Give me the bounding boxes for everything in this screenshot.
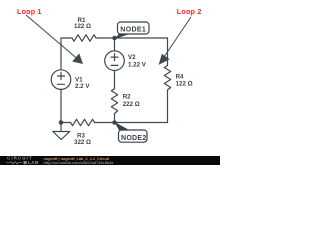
svg-text:1.22 V: 1.22 V [128,61,147,68]
svg-text:322 Ω: 322 Ω [74,139,91,146]
svg-text:http://circuitlab.com/c5bb7ad7: http://circuitlab.com/c5bb7ad746c5b3a [44,161,115,165]
svg-text:R4: R4 [176,73,184,80]
resistor R4 [164,66,170,91]
wire top rail left [61,37,72,39]
wire right rail lower [167,90,169,123]
resistor R3 [71,119,95,125]
loop 2 arrow [159,17,191,65]
resistor R2 [111,89,117,114]
wire top rail right [115,37,168,39]
node NODE2 box [119,130,148,142]
wire middle upper [114,38,116,51]
resistor R1 [72,35,96,41]
svg-text:R2: R2 [123,93,131,100]
svg-text:222 Ω: 222 Ω [123,101,140,108]
node junction dot NODE2 [112,120,117,125]
node junction dot bottom-left [59,120,64,125]
svg-text:122 Ω: 122 Ω [176,80,193,87]
wire bottom rail left [61,122,71,124]
wire left rail upper [60,38,62,70]
svg-text:LAB: LAB [28,160,39,165]
svg-text:2.2 V: 2.2 V [75,83,90,90]
wire middle lower [114,114,116,123]
wire top rail mid [96,37,115,39]
svg-text:NODE1: NODE1 [120,27,146,34]
node NODE1 box [118,22,150,34]
minus sign V2 [111,64,118,66]
plus sign V1 [58,73,65,80]
wire left rail lower [60,89,62,122]
wire middle below V2 [114,71,116,89]
svg-text:NODE2: NODE2 [121,135,147,142]
wire right rail upper [167,38,169,66]
svg-text:V2: V2 [128,54,136,61]
plus sign V2 [111,54,118,61]
node junction dot NODE1 [112,36,117,41]
node NODE1 callout pointer [115,34,131,39]
ground [60,123,62,132]
voltage source V1 [51,70,71,90]
minus sign V1 [58,83,65,85]
svg-text:Loop 2: Loop 2 [177,7,202,16]
wire bottom rail right [95,122,168,124]
voltage source V2 [105,51,125,71]
loop 1 arrow [26,15,83,64]
node NODE2 callout pointer [115,122,130,130]
watermark bar [0,156,220,165]
svg-text:Loop 1: Loop 1 [17,7,42,16]
svg-text:122 Ω: 122 Ω [74,23,91,30]
